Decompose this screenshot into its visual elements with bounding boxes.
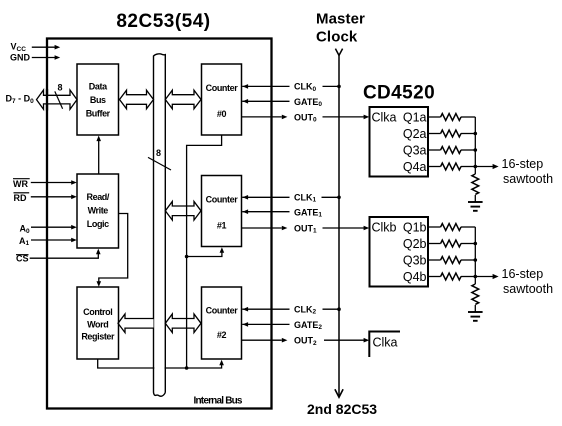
arrow OUT2 [282, 338, 288, 343]
svg-text:Clkb: Clkb [372, 220, 397, 234]
arrow GATE2 into counter [243, 322, 249, 327]
wire sum to load resistor a [474, 167, 476, 175]
arrow RD [71, 195, 77, 200]
wire OUT1 from Counter #1 [242, 227, 282, 229]
svg-text:Q1b: Q1b [403, 220, 427, 234]
wire OUT2 to 2nd CD4520 Clka [324, 339, 364, 341]
svg-text:GATE0: GATE0 [294, 97, 322, 108]
wire GATE2 into Counter #2 [242, 323, 289, 325]
svg-text:Word: Word [87, 320, 108, 330]
resistor R load b [472, 284, 479, 304]
svg-text:Q3b: Q3b [403, 253, 427, 267]
wire Q4b to resistor [428, 276, 441, 278]
svg-text:WR: WR [13, 179, 28, 189]
IC CD4520 Clka box [370, 107, 429, 177]
svg-text:Q2a: Q2a [403, 127, 427, 141]
arrow into Clkb [364, 226, 370, 231]
wire OUT1 to CD4520 Clkb [323, 227, 365, 229]
arrow GATE0 into counter [243, 99, 249, 104]
node feed junction at Counter #1 [185, 255, 189, 259]
svg-text:16-step: 16-step [502, 267, 544, 281]
wire A1 [31, 239, 72, 241]
wire RD [31, 196, 72, 198]
svg-text:Counter: Counter [206, 305, 239, 315]
wire summing bus b [474, 227, 476, 277]
resistor R2 [441, 130, 461, 137]
resistor R5 [441, 224, 461, 231]
block Counter #0 [202, 64, 242, 135]
arrow CLK1 into counter [243, 195, 249, 200]
wire VCC [32, 46, 56, 48]
wire resistor R1 to sum node [461, 116, 475, 118]
wire OUT0 to CD4520 Clka [323, 116, 365, 118]
wire CLK1 to master clock [322, 196, 340, 198]
svg-text:#1: #1 [217, 220, 227, 230]
svg-text:16-step: 16-step [502, 157, 544, 171]
wire Q1a to resistor [428, 116, 441, 118]
resistor R8 [441, 273, 461, 280]
svg-text:Read/: Read/ [86, 192, 109, 202]
wire Q2b to resistor [428, 243, 441, 245]
bus arrow internal bus to Control Word Register [118, 314, 154, 333]
wire Control Word Register bottom to counters feed [98, 359, 187, 368]
wire resistor R7 to sum node [461, 259, 475, 261]
wire feed to Counter #1 bottom [187, 252, 222, 257]
svg-text:#2: #2 [217, 330, 227, 340]
node CLK0 master junction [337, 85, 341, 89]
svg-text:D7 - D0: D7 - D0 [6, 94, 35, 105]
wire resistor R4 to sum node [461, 166, 475, 168]
svg-text:RD: RD [14, 193, 27, 203]
svg-text:Q3a: Q3a [403, 143, 427, 157]
wire CLK2 into Counter #2 [242, 308, 289, 310]
arrow GATE1 into counter [243, 209, 249, 214]
svg-text:Q4a: Q4a [403, 160, 427, 174]
svg-text:Counter: Counter [206, 194, 239, 204]
wire feed to Counter #2 bottom [187, 364, 222, 369]
svg-text:Counter: Counter [206, 83, 239, 93]
svg-text:Register: Register [81, 331, 115, 341]
svg-text:Q1a: Q1a [403, 110, 427, 124]
arrow CS into Read/Write Logic [96, 249, 101, 255]
wire load resistor to ground a [474, 195, 476, 202]
svg-text:Internal Bus: Internal Bus [194, 396, 243, 407]
arrow into Clka [364, 115, 370, 120]
node sum junction Q4a [474, 165, 478, 169]
node sum junction Q2b [474, 242, 478, 246]
svg-text:Write: Write [88, 205, 109, 215]
svg-text:GND: GND [10, 52, 31, 62]
wire Q3a to resistor [428, 149, 441, 151]
block Control Word Register [77, 287, 119, 359]
node CLK2 master junction [337, 307, 341, 311]
arrow OUT1 [282, 226, 288, 231]
wire load resistor to ground b [474, 305, 476, 312]
svg-text:sawtooth: sawtooth [503, 282, 553, 296]
svg-text:CD4520: CD4520 [363, 83, 435, 104]
svg-text:Q4b: Q4b [403, 270, 427, 284]
wire GND [32, 57, 56, 59]
wire A0 [31, 226, 72, 228]
wire summing bus a [474, 117, 476, 167]
svg-text:8: 8 [156, 148, 161, 158]
wire Q4a to resistor [428, 166, 441, 168]
wire CS [30, 253, 99, 258]
arrow CLK0 into counter [243, 84, 249, 89]
svg-text:GATE2: GATE2 [294, 320, 322, 331]
resistor R load a [472, 174, 479, 194]
arrow master clock in [335, 49, 342, 56]
arrow A1 [71, 238, 77, 243]
wire resistor R3 to sum node [461, 149, 475, 151]
svg-text:8: 8 [58, 82, 63, 92]
svg-text:82C53(54): 82C53(54) [116, 11, 210, 32]
wire Counter #0 bottom to feed line [187, 135, 222, 257]
arrow VCC [55, 45, 61, 50]
wire GATE0 into Counter #0 [242, 100, 289, 102]
wire GATE1 into Counter #1 [242, 211, 289, 213]
wire sum to load resistor b [474, 277, 476, 285]
arrow OUT0 [282, 115, 288, 120]
svg-text:Data: Data [89, 82, 108, 92]
node CLK1 master junction [337, 196, 341, 200]
svg-text:Clka: Clka [372, 110, 397, 124]
arrow GND [55, 55, 61, 60]
arrow sum output a [493, 164, 499, 169]
resistor R6 [441, 240, 461, 247]
svg-text:Buffer: Buffer [86, 108, 111, 118]
IC 82C53 outer box [47, 39, 272, 409]
bus arrow internal bus to Counter #2 [165, 314, 201, 333]
internal bus band [154, 56, 164, 394]
node sum junction Q4b [474, 275, 478, 279]
svg-text:Bus: Bus [90, 95, 106, 105]
wire master clock vertical [338, 55, 340, 396]
wire resistor R2 to sum node [461, 133, 475, 135]
resistor R1 [441, 114, 461, 121]
wire resistor R8 to sum node [461, 276, 475, 278]
wire CLK1 into Counter #1 [242, 196, 289, 198]
wire resistor R5 to sum node [461, 226, 475, 228]
bus arrow internal bus to Counter #0 [165, 90, 201, 109]
arrow A0 [71, 225, 77, 230]
wire OUT0 from Counter #0 [242, 116, 282, 118]
arrow WR [71, 180, 77, 185]
resistor R4 [441, 163, 461, 170]
block Counter #2 [202, 287, 242, 359]
wire Read/Write Logic to Data Bus Buffer [98, 140, 100, 175]
wire sum output b [475, 276, 493, 278]
svg-text:GATE1: GATE1 [294, 207, 322, 218]
arrow into Counter #1 bottom [220, 247, 225, 253]
svg-text:Q2b: Q2b [403, 237, 427, 251]
svg-text:Clock: Clock [316, 29, 358, 46]
arrow into 2nd Clka [364, 338, 370, 343]
wire Q3b to resistor [428, 259, 441, 261]
svg-text:sawtooth: sawtooth [503, 172, 553, 186]
bus arrow internal bus to Counter #1 [165, 202, 201, 221]
resistor R3 [441, 147, 461, 154]
wire Q2a to resistor [428, 133, 441, 135]
wire Read/Write Logic to Control Word Register [99, 214, 128, 283]
wire WR [31, 182, 72, 184]
svg-text:Control: Control [83, 307, 112, 317]
block Read/Write Logic [77, 174, 119, 248]
wire feed line down [186, 257, 188, 369]
wire sum output a [475, 166, 493, 168]
IC CD4520 Clkb box [370, 217, 429, 287]
bus width slash D7-D0 [55, 91, 63, 108]
resistor R7 [441, 257, 461, 264]
svg-text:Logic: Logic [87, 219, 109, 229]
node sum junction Q2a [474, 132, 478, 136]
ground a [468, 202, 483, 211]
node sum junction Q3a [474, 148, 478, 152]
arrow into Counter #2 bottom [219, 360, 224, 366]
svg-text:2nd 82C53: 2nd 82C53 [307, 401, 377, 417]
ground b [468, 312, 483, 321]
IC 82C53 outer box left edge over D7-D0 arrow [46, 89, 48, 111]
bus width slash (internal bus) [148, 157, 171, 170]
wire CLK0 to master clock [323, 85, 340, 87]
wire OUT2 from Counter #2 [242, 339, 282, 341]
arrow CLK2 into counter [243, 307, 249, 312]
wire CLK0 into Counter #0 [242, 85, 289, 87]
svg-text:#0: #0 [217, 109, 227, 119]
arrow master clock to 2nd 82C53 [335, 389, 343, 397]
wire CLK2 to master clock [323, 308, 340, 310]
wire resistor R6 to sum node [461, 243, 475, 245]
arrow into Control Word Register top [97, 281, 102, 287]
node feed junction at Counter #2 [185, 366, 189, 370]
bus arrow Data Bus Buffer to internal bus [120, 90, 154, 109]
node sum junction Q3b [474, 258, 478, 262]
arrow into Data Bus Buffer [96, 136, 101, 142]
block Counter #1 [202, 176, 242, 247]
block Data Bus Buffer [77, 64, 119, 135]
svg-text:Master: Master [316, 11, 365, 28]
svg-text:Clka: Clka [373, 335, 398, 349]
bus arrow D7-D0 [37, 90, 78, 109]
arrow sum output b [493, 274, 499, 279]
wire Q1b to resistor [428, 226, 441, 228]
IC 2nd CD4520 partial box [369, 332, 400, 358]
